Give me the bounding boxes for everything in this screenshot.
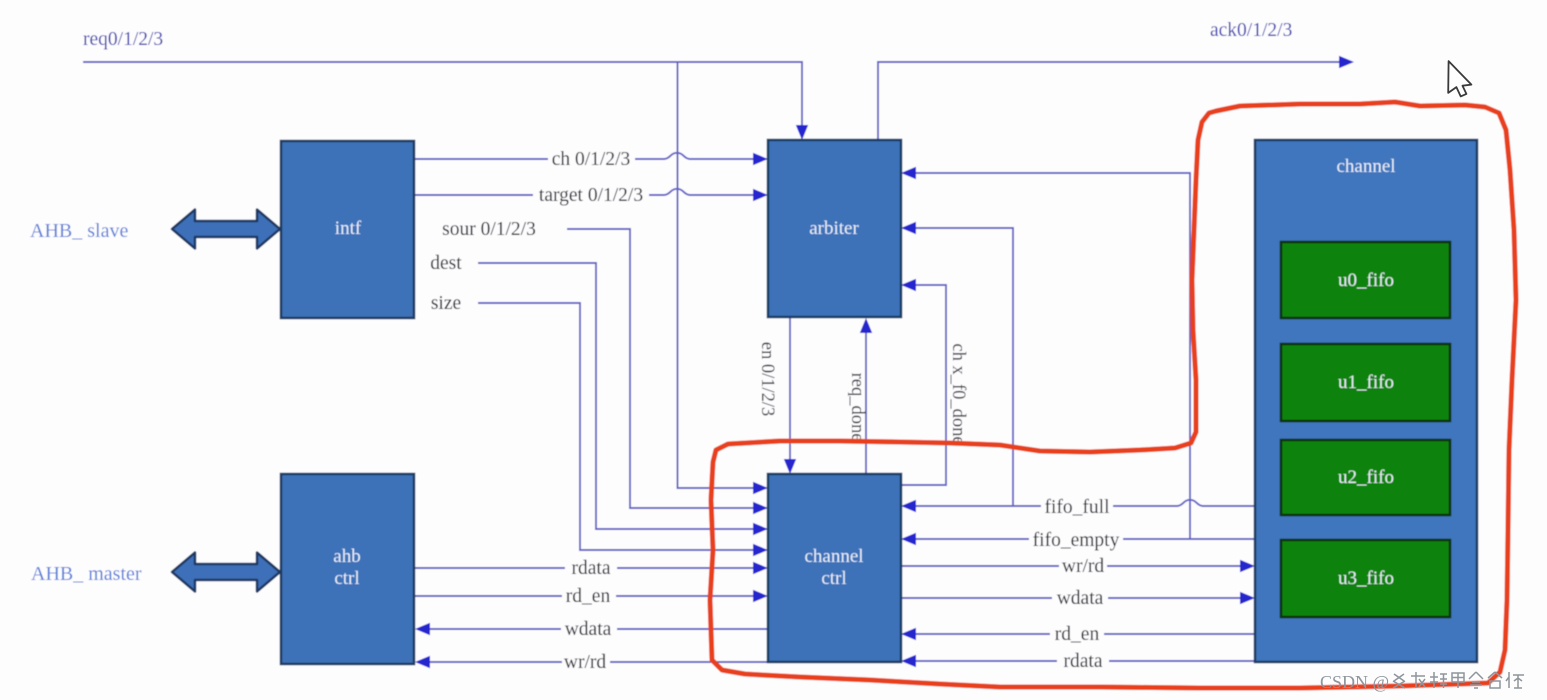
watermark glyph 1 (1393, 674, 1405, 688)
svg-text:wr/rd: wr/rd (564, 652, 606, 673)
svg-text:req0/1/2/3: req0/1/2/3 (83, 29, 163, 50)
svg-text:wdata: wdata (565, 619, 612, 640)
svg-text:target 0/1/2/3: target 0/1/2/3 (539, 185, 643, 206)
svg-text:intf: intf (335, 218, 362, 239)
block u3_fifo (1281, 540, 1450, 617)
svg-text:size: size (431, 293, 461, 314)
arrowhead ack (1339, 56, 1354, 68)
wire size to channel ctrl input4 (478, 303, 754, 550)
wire wr/rd channel_ctrl->channel (901, 565, 1241, 567)
svg-text:u3_fifo: u3_fifo (1338, 568, 1394, 589)
wire fifo_full channel->channel_ctrl with hop at 1190 (916, 500, 1255, 506)
wire rdata ahb->channel_ctrl (415, 567, 754, 569)
watermark glyph 5 (1469, 672, 1483, 688)
svg-text:u2_fifo: u2_fifo (1338, 467, 1394, 488)
red hand-drawn loop around channel ctrl and channel (710, 102, 1516, 688)
wire sour to channel ctrl input2 (567, 229, 754, 508)
wire req0/1/2/3 horizontal to arbiter top (83, 62, 802, 129)
block u1_fifo (1281, 344, 1450, 421)
wire fifo_empty branch up to arbiter (915, 173, 1190, 539)
block u0_fifo (1281, 242, 1450, 318)
arrow into channel_ctrl input1 (753, 482, 768, 494)
arrow into arbiter top (796, 125, 808, 140)
wire wdata channel_ctrl->ahb (429, 628, 768, 630)
svg-text:wr/rd: wr/rd (1062, 556, 1104, 577)
block channel ctrl (768, 474, 901, 662)
svg-text:ctrl: ctrl (334, 568, 359, 589)
svg-text:wdata: wdata (1057, 588, 1104, 609)
wire req branch down to channel ctrl input 1 (678, 62, 754, 488)
watermark glyph 4 (1452, 673, 1464, 688)
svg-text:AHB_ slave: AHB_ slave (30, 220, 128, 242)
svg-text:req_done: req_done (847, 373, 867, 442)
bidir arrow AHB master to ahb ctrl (172, 553, 280, 592)
block u2_fifo (1281, 440, 1450, 515)
svg-text:channel: channel (804, 546, 863, 567)
svg-text:dest: dest (430, 253, 462, 274)
wire rdata channel->channel_ctrl (915, 660, 1255, 662)
wire ch x_f0_done channel_ctrl->arbiter right side (901, 285, 946, 485)
svg-text:AHB_ master: AHB_ master (31, 563, 142, 585)
svg-text:ahb: ahb (333, 546, 360, 567)
svg-text:u1_fifo: u1_fifo (1338, 372, 1394, 393)
block intf (281, 141, 414, 318)
wire en 0/1/2/3 arbiter->channel_ctrl (789, 318, 791, 462)
wire rd_en channel->channel_ctrl (915, 633, 1255, 635)
wire ack from arbiter top to right arrow (878, 62, 1340, 140)
block channel (1255, 140, 1477, 662)
svg-text:rd_en: rd_en (566, 586, 611, 607)
watermark glyph 2 (1411, 672, 1425, 688)
wire dest to channel ctrl input3 (478, 263, 754, 529)
svg-text:en 0/1/2/3: en 0/1/2/3 (757, 342, 777, 417)
wire ch 0/1/2/3 from intf to arbiter with hop at x=677 (415, 153, 753, 159)
svg-text:rd_en: rd_en (1055, 624, 1100, 645)
mouse cursor (1448, 61, 1471, 96)
wire req_done channel_ctrl->arbiter (865, 331, 867, 474)
svg-text:fifo_full: fifo_full (1045, 497, 1111, 518)
svg-text:ch x_f0_done: ch x_f0_done (948, 343, 968, 444)
wire wr/rd channel_ctrl->ahb (429, 661, 768, 663)
wire rd_en ahb->channel_ctrl (415, 595, 754, 597)
wire wdata channel_ctrl->channel (901, 597, 1241, 599)
svg-text:sour 0/1/2/3: sour 0/1/2/3 (442, 219, 536, 240)
svg-text:CSDN @: CSDN @ (1320, 672, 1389, 692)
watermark glyph 6 (1488, 672, 1502, 688)
bidir arrow AHB slave to intf (172, 210, 280, 249)
svg-text:ctrl: ctrl (821, 568, 846, 589)
block ahb ctrl (281, 474, 414, 664)
svg-text:rdata: rdata (572, 558, 611, 579)
svg-text:channel: channel (1336, 156, 1395, 177)
svg-text:rdata: rdata (1064, 651, 1103, 672)
svg-text:fifo_empty: fifo_empty (1033, 530, 1120, 551)
svg-text:arbiter: arbiter (809, 218, 859, 239)
wire fifo_empty channel->channel_ctrl (915, 538, 1255, 540)
svg-text:ack0/1/2/3: ack0/1/2/3 (1210, 20, 1292, 41)
svg-text:ch 0/1/2/3: ch 0/1/2/3 (552, 149, 631, 170)
wire fifo_full branch up to arbiter (915, 228, 1013, 506)
block arbiter (768, 140, 901, 317)
svg-text:u0_fifo: u0_fifo (1338, 270, 1394, 291)
watermark glyph 3 (1430, 672, 1447, 688)
watermark glyph 7 (1506, 672, 1524, 688)
wire target 0/1/2/3 with hop (415, 189, 753, 195)
